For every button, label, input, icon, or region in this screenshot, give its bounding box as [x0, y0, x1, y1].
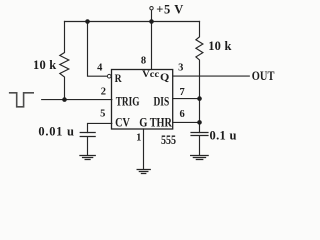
svg-text:Q: Q	[160, 71, 170, 83]
svg-text:555: 555	[161, 132, 176, 147]
svg-text:DIS: DIS	[154, 94, 170, 109]
svg-text:6: 6	[179, 109, 184, 120]
svg-text:10 k: 10 k	[33, 58, 56, 72]
svg-text:0.1 u: 0.1 u	[210, 129, 237, 143]
svg-text:R: R	[115, 71, 122, 85]
svg-text:OUT: OUT	[252, 69, 275, 83]
svg-text:5: 5	[100, 108, 105, 119]
svg-text:8: 8	[141, 56, 146, 67]
svg-text:THR: THR	[150, 115, 173, 130]
svg-text:2: 2	[101, 87, 106, 98]
svg-text:TRIG: TRIG	[116, 94, 140, 109]
svg-text:1: 1	[136, 133, 141, 144]
svg-text:G: G	[139, 115, 147, 130]
svg-text:CV: CV	[115, 115, 130, 130]
svg-text:Vcc: Vcc	[142, 70, 159, 80]
svg-text:4: 4	[97, 63, 103, 74]
svg-text:10 k: 10 k	[208, 39, 231, 53]
svg-text:3: 3	[178, 63, 183, 74]
svg-text:+5 V: +5 V	[156, 2, 183, 16]
svg-text:0.01 u: 0.01 u	[38, 125, 74, 139]
svg-text:7: 7	[179, 87, 184, 98]
